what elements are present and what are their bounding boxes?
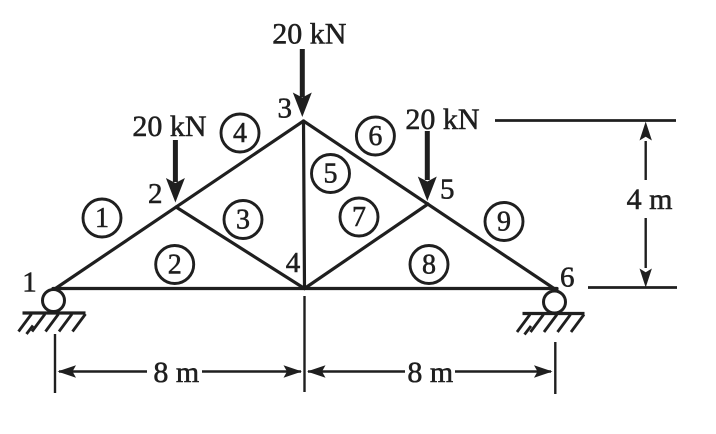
svg-text:3: 3 [277,93,292,125]
svg-text:8: 8 [422,250,436,281]
svg-text:6: 6 [560,262,575,294]
svg-text:4: 4 [286,247,301,279]
svg-text:20 kN: 20 kN [132,110,206,143]
svg-text:8 m: 8 m [153,356,199,389]
svg-text:7: 7 [352,202,366,233]
svg-text:6: 6 [368,121,382,152]
svg-text:20 kN: 20 kN [405,103,479,136]
svg-text:2: 2 [168,250,182,281]
svg-text:9: 9 [497,207,511,238]
svg-text:4 m: 4 m [627,183,673,216]
svg-text:20 kN: 20 kN [272,18,346,51]
svg-text:4: 4 [233,118,247,149]
svg-text:2: 2 [148,178,163,210]
svg-text:5: 5 [324,159,338,190]
svg-text:3: 3 [236,205,250,236]
svg-text:5: 5 [440,174,455,206]
svg-text:1: 1 [95,203,109,234]
svg-text:1: 1 [22,267,37,299]
svg-text:8 m: 8 m [407,356,453,389]
